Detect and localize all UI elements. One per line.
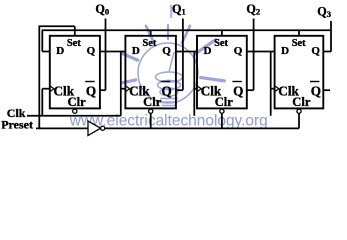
wire: Set0 overhead run [39,25,75,27]
D flip-flop U2 [125,36,175,109]
wire: Q0 label drop [105,19,107,91]
svg-text:Clr: Clr [68,95,87,109]
inverter output bubble [101,126,105,130]
svg-text:Clr: Clr [292,95,311,109]
svg-text:Q: Q [311,84,321,99]
inverter (preset) [88,121,101,136]
wire: Clr1 drop [150,113,152,129]
wire: Preset rail into inverter [36,127,88,129]
svg-text:Q: Q [233,84,243,99]
wire: preset riser to Set rail [38,26,40,128]
wire: Clk bottom rail [27,115,121,117]
svg-text:Set: Set [292,38,306,49]
wire: Set3 stub [298,30,300,36]
svg-text:Q: Q [234,45,243,57]
wire: Q0 output to D1 [100,51,126,53]
svg-text:Clr: Clr [143,95,162,109]
svg-text:Q: Q [87,45,96,57]
wire: Q-bar stub FF3 [247,89,254,91]
wire: Clr3 drop [298,113,300,129]
svg-text:Preset: Preset [1,118,33,132]
wire: Set2 stub [221,30,223,36]
D flip-flop U3 [197,36,247,109]
svg-text:Q: Q [86,84,96,99]
wire: clock riser FF4 [270,52,272,116]
svg-text:Set: Set [67,38,81,49]
svg-text:Q: Q [162,84,172,99]
Clr bubble FF3 [220,109,224,113]
wire: Q2 label drop [253,19,255,91]
svg-text:D: D [132,45,140,57]
wire: top feedback rail (Q3 bar to D0) [42,29,331,31]
wire: clk stub FF3 [194,88,197,90]
svg-text:D: D [281,45,289,57]
svg-text:Q: Q [162,45,171,57]
wire: clk stub FF2 [121,88,126,90]
svg-text:Clr: Clr [215,95,234,109]
wire: Clk riser FF1 [41,89,43,116]
wire: clk stub FF4 [271,88,275,90]
D flip-flop U1 [50,36,100,109]
wire: Clk label lead [27,115,28,117]
wire: Clr2 drop [221,113,223,129]
wire: Clk input stub FF1 [42,88,50,90]
wire: Q-bar stub FF2 [176,89,183,91]
wire: Q-bar stub FF1 [100,89,106,91]
svg-text:Q: Q [311,45,320,57]
svg-text:Set: Set [214,38,228,49]
wire: D0 feedback drop [41,30,43,51]
svg-text:D: D [56,45,64,57]
wire: Q3 output stub [323,51,331,53]
Clr bubble FF1 [73,109,77,113]
wire: Q1 output to D2 [176,51,197,53]
wire: inverter output rail [105,127,299,129]
wire: Q2 output to D3 [247,51,275,53]
wire: clock riser FF3 [193,52,195,116]
wire: D0 input stub [42,51,50,53]
wire: clock riser FF2 [120,52,122,116]
wire: Q3 label drop [330,21,332,52]
Clr bubble FF4 [297,109,301,113]
wire: Q-bar stub FF4 [323,89,330,91]
wire: Set0 stub [74,26,76,36]
wire: Set1 stub [150,30,152,36]
Clr bubble FF2 [149,109,153,113]
svg-text:D: D [204,45,212,57]
watermark: electricaltechnology.org logo [122,5,224,106]
wire: Q1 label drop [182,19,184,91]
D flip-flop U4 [275,36,324,109]
svg-text:Set: Set [143,38,157,49]
